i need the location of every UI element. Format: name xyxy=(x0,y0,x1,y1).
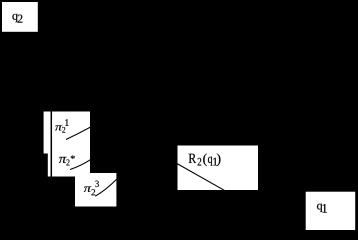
label box pi2^3 (iso-profit curve 3 label) xyxy=(75,173,116,207)
q2 axis (vertical axis line segment) xyxy=(50,111,52,177)
iso-profit curve pi2^* xyxy=(70,159,91,169)
iso-profit curve pi2^1 xyxy=(66,127,91,140)
label box R2(q1) (reaction function label) xyxy=(178,146,259,191)
label box q1 (horizontal axis label) xyxy=(306,192,356,230)
label box pi2^1 (iso-profit curve 1 label) xyxy=(44,112,90,154)
label box pi2^* (iso-profit curve at tangency) xyxy=(48,148,90,177)
label box q2 (vertical axis label) xyxy=(2,2,38,32)
iso-profit curve pi2^3 xyxy=(95,179,116,196)
reaction function R2(q1) line xyxy=(177,164,224,191)
